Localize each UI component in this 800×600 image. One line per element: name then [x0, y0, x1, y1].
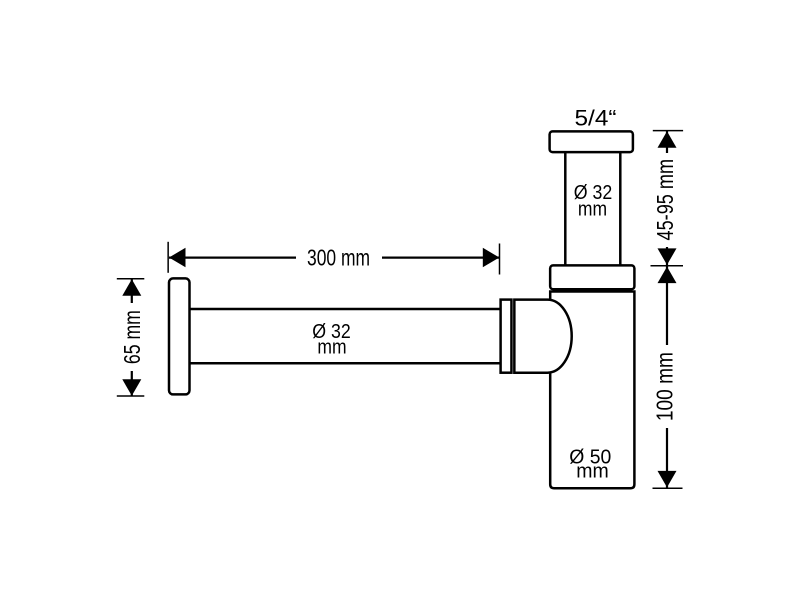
- middle junction tick between 45-95 and 100 dimensions: [651, 265, 684, 267]
- dimension 65 mm: bottom tick at flange bottom: [117, 395, 145, 397]
- dimension 100 mm: bottom tick at bottle bottom: [653, 487, 683, 489]
- svg-text:mm: mm: [317, 336, 346, 358]
- svg-text:300 mm: 300 mm: [307, 244, 370, 270]
- svg-text:5/4“: 5/4“: [575, 106, 617, 131]
- vertical inlet pipe Ø32 (wires from 5/4 nut down to bottle nut): [565, 151, 620, 267]
- dimension 100 mm: down arrowhead at bottle bottom: [658, 471, 677, 488]
- dimension 65 mm: label (rotated): [122, 303, 142, 371]
- bottle body Ø50: [550, 292, 634, 489]
- dimension 300 mm: label: [296, 247, 382, 267]
- dimension 65 mm: down arrowhead: [122, 379, 141, 396]
- dimension 45-95 mm: top tick at nut top: [653, 130, 683, 132]
- compression nut at tube end: [501, 300, 512, 373]
- horizontal wall tube Ø32 (lower line): [190, 362, 501, 365]
- inlet elbow bell into bottle: [514, 300, 571, 373]
- dimension 45-95 mm: label (rotated): [658, 153, 676, 247]
- dimension 100 mm: up arrowhead under middle tick: [658, 267, 677, 284]
- horizontal wall tube Ø32 (upper line): [190, 308, 501, 311]
- dimension 45-95 mm: up arrowhead under top tick: [658, 131, 677, 148]
- svg-text:mm: mm: [576, 461, 609, 483]
- svg-text:100 mm: 100 mm: [652, 352, 678, 421]
- svg-text:45-95 mm: 45-95 mm: [652, 159, 678, 241]
- svg-text:mm: mm: [578, 198, 607, 220]
- dimension 65 mm: up arrowhead: [122, 279, 141, 296]
- wall flange (rosette): [169, 278, 190, 394]
- dimension 300 mm: left extension line at flange: [167, 242, 169, 273]
- dimension 65 mm: dimension line: [131, 279, 133, 396]
- dimension 100 mm: dimension line: [666, 267, 668, 488]
- dimension 300 mm: right arrowhead: [483, 248, 500, 267]
- dimension 100 mm: label (rotated): [658, 345, 676, 428]
- top nut 5/4 inch: [550, 131, 633, 152]
- dimension 45-95 mm: dimension line: [666, 131, 668, 265]
- dimension 300 mm: left arrowhead: [169, 248, 186, 267]
- dimension 300 mm: right extension line at nut: [499, 244, 501, 275]
- dimension 300 mm: dimension line: [169, 257, 499, 259]
- dimension 65 mm: top tick at flange top: [117, 278, 145, 280]
- bottle cup nut: [550, 265, 634, 289]
- dimension 45-95 mm: down arrowhead above middle tick: [658, 248, 677, 265]
- svg-text:65 mm: 65 mm: [119, 310, 145, 364]
